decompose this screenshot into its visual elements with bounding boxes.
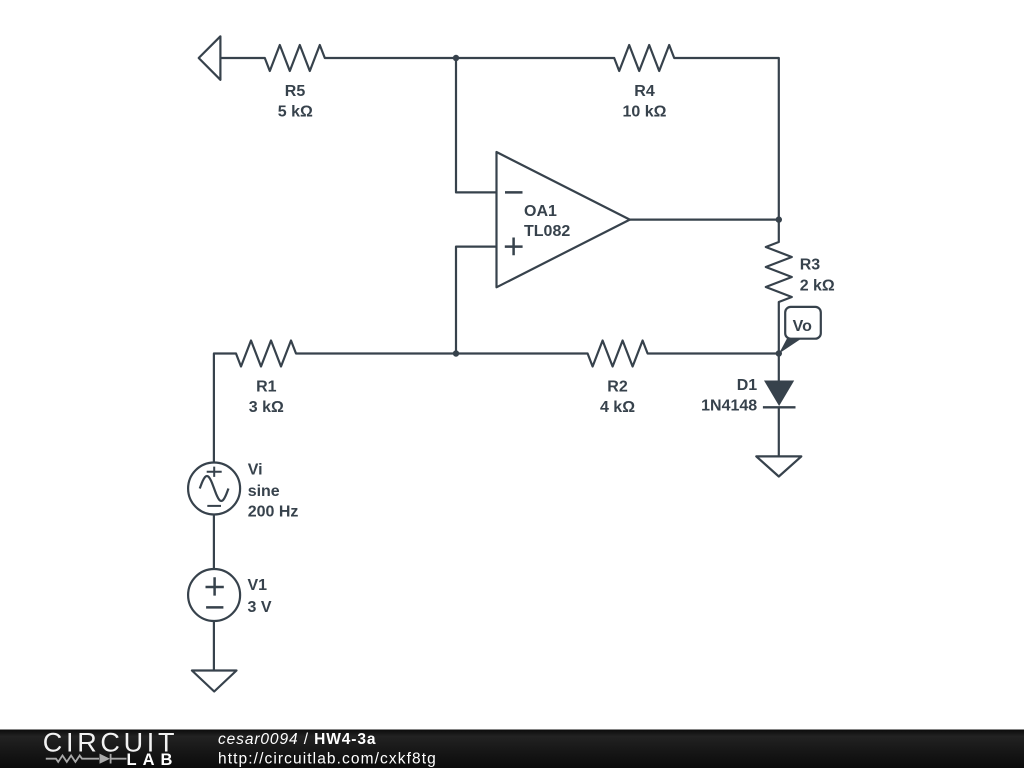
svg-text:5 kΩ: 5 kΩ <box>278 104 313 121</box>
svg-text:LAB: LAB <box>127 751 179 768</box>
svg-text:R2: R2 <box>607 378 628 395</box>
svg-text:Vo: Vo <box>793 318 812 335</box>
svg-text:3 V: 3 V <box>248 599 272 616</box>
svg-text:Vi: Vi <box>248 462 263 479</box>
svg-text:3 kΩ: 3 kΩ <box>249 399 284 416</box>
svg-text:R4: R4 <box>634 83 655 100</box>
svg-text:sine: sine <box>248 483 280 500</box>
svg-text:http://circuitlab.com/cxkf8tg: http://circuitlab.com/cxkf8tg <box>218 751 437 768</box>
svg-text:D1: D1 <box>737 377 758 394</box>
svg-text:2 kΩ: 2 kΩ <box>800 278 835 295</box>
svg-text:10 kΩ: 10 kΩ <box>623 104 667 121</box>
svg-text:4 kΩ: 4 kΩ <box>600 399 635 416</box>
svg-text:R3: R3 <box>800 257 821 274</box>
svg-text:cesar0094 / HW4-3a: cesar0094 / HW4-3a <box>218 731 376 748</box>
svg-text:OA1: OA1 <box>524 203 557 220</box>
svg-text:R1: R1 <box>256 378 277 395</box>
svg-text:1N4148: 1N4148 <box>701 398 757 415</box>
svg-text:200 Hz: 200 Hz <box>248 504 299 521</box>
svg-text:V1: V1 <box>248 577 268 594</box>
svg-text:R5: R5 <box>285 83 306 100</box>
svg-text:TL082: TL082 <box>524 223 570 240</box>
